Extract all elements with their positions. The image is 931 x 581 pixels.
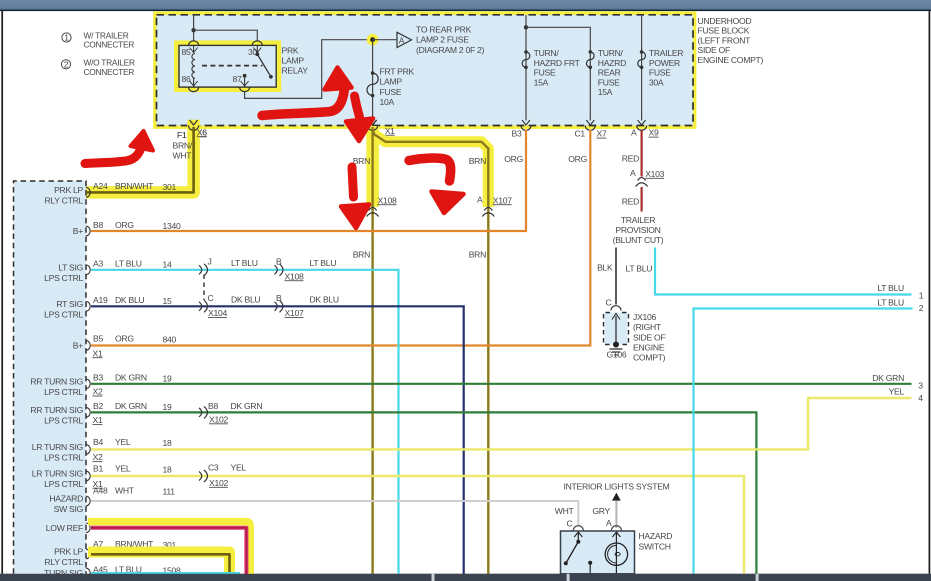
svg-text:A: A: [630, 168, 636, 178]
svg-text:B: B: [276, 293, 282, 303]
row A19 DK BLU 15: [44, 295, 172, 319]
inline connector B X108: [275, 264, 284, 276]
inline connector X107 (vertical BRN): [477, 195, 512, 217]
wire A10 PPL 719 (pink highlighted): [91, 528, 246, 574]
red marker arrow down left BRN: [341, 167, 369, 228]
svg-text:X1: X1: [93, 348, 103, 358]
red marker arrow 7-shape right BRN: [409, 158, 464, 213]
ground G106 symbol: [610, 342, 623, 356]
wire: node A to triangle: [373, 39, 397, 41]
svg-text:LT BLU: LT BLU: [877, 297, 904, 307]
row A45 LT BLU 1508: [44, 565, 181, 579]
svg-text:RR TURN SIG: RR TURN SIG: [30, 405, 83, 415]
wire: jumper to rear turn fuse: [526, 27, 590, 120]
svg-text:X9: X9: [649, 128, 659, 138]
wire A45 LT BLU 1508 (mostly under bar): [91, 572, 240, 574]
ground box JX106 (dashed brackets, blue fill): [604, 313, 629, 345]
svg-text:DK GRN: DK GRN: [872, 373, 904, 383]
svg-text:B8: B8: [208, 401, 218, 411]
junction dot turn feed: [524, 25, 528, 29]
inline connector X108 (vertical BRN): [367, 195, 397, 216]
svg-text:(LEFT FRONT: (LEFT FRONT: [698, 35, 752, 45]
svg-text:PRK LP: PRK LP: [54, 185, 83, 195]
svg-text:LR TURN SIG: LR TURN SIG: [32, 469, 84, 479]
pin 86 stem: [193, 78, 195, 87]
label F1 X6: [177, 127, 207, 140]
svg-text:X6: X6: [197, 127, 207, 137]
svg-text:JX106: JX106: [633, 312, 656, 322]
note 1: W/ TRAILER CONNECTER: [62, 30, 134, 49]
svg-text:UNDERHOOD: UNDERHOOD: [698, 16, 752, 26]
svg-text:B+: B+: [73, 341, 83, 351]
wire A48 WHT 111 to hazard switch: [91, 501, 578, 525]
fuse FRT PRK LAMP FUSE 10A: [367, 71, 378, 97]
svg-text:C1: C1: [575, 129, 586, 139]
svg-text:SW SIG: SW SIG: [54, 504, 84, 514]
wire A24 BRN/WHT core: [87, 127, 194, 192]
svg-text:YEL: YEL: [115, 437, 131, 447]
svg-text:PRK: PRK: [282, 46, 299, 56]
svg-text:DK BLU: DK BLU: [310, 295, 339, 305]
re-draw exit connector X6 over highlight: [189, 120, 199, 130]
svg-text:G106: G106: [607, 350, 627, 360]
svg-text:WHT: WHT: [173, 151, 193, 161]
svg-text:18: 18: [163, 465, 172, 475]
svg-text:RR TURN SIG: RR TURN SIG: [30, 376, 83, 386]
labels BRN on verticals: [353, 156, 370, 166]
svg-text:C3: C3: [208, 462, 219, 472]
row A24 BRN/WHT 301: [44, 181, 176, 205]
label HAZARD SWITCH: [639, 531, 673, 551]
svg-text:DK BLU: DK BLU: [231, 295, 260, 305]
triangle A (to rear prk lamp 2 fuse): [397, 32, 412, 47]
svg-text:87: 87: [233, 74, 242, 84]
relay linkage dashed: [202, 65, 263, 67]
connector C at JX106: [606, 297, 622, 310]
wire B1 YEL 18: [91, 476, 744, 574]
svg-text:B5: B5: [93, 334, 103, 344]
hazard pin C inner arrow + switch blade: [564, 532, 583, 565]
svg-text:TURN/: TURN/: [598, 48, 624, 58]
pin 87 exit arrow: [241, 81, 249, 86]
inline connector B8 X102: [199, 406, 208, 418]
label TRAILER POWER FUSE 30A: [649, 48, 683, 87]
wire LT BLU 1 from trailer provision to right edge: [655, 248, 912, 295]
svg-text:2: 2: [64, 59, 69, 69]
svg-text:ORG: ORG: [504, 154, 523, 164]
red marker arrow down at X1: [346, 96, 373, 141]
svg-text:F1: F1: [177, 130, 187, 140]
svg-text:WHT: WHT: [555, 506, 575, 516]
svg-text:INTERIOR LIGHTS SYSTEM: INTERIOR LIGHTS SYSTEM: [564, 481, 670, 491]
label TO REAR PRK LAMP 2 FUSE: [416, 25, 485, 55]
svg-text:X2: X2: [93, 387, 103, 397]
ground stem arrow inside box: [612, 314, 620, 345]
svg-text:LPS CTRL: LPS CTRL: [44, 415, 83, 425]
red marker arrow near A24: [85, 131, 153, 164]
underhood fuse block box (highlight + fill + dashed border): [157, 15, 694, 126]
highlight: A7 BRN/WHT yellow band: [88, 552, 230, 574]
label BRN/WHT vertical: [173, 141, 193, 161]
wire X1 BRN main drop core: [371, 127, 373, 574]
hazard pin A connector arc: [606, 518, 621, 531]
svg-text:WHT: WHT: [115, 486, 135, 496]
svg-text:LT BLU: LT BLU: [115, 258, 142, 268]
prk lamp relay U1 (highlighted box): [178, 44, 278, 88]
svg-text:X103: X103: [645, 169, 664, 179]
svg-text:RT SIG: RT SIG: [56, 299, 83, 309]
svg-text:LPS CTRL: LPS CTRL: [44, 387, 83, 397]
re-draw exit connector X1 over highlight: [368, 120, 378, 130]
svg-text:X108: X108: [285, 271, 304, 281]
svg-text:B4: B4: [93, 437, 103, 447]
svg-text:1340: 1340: [163, 221, 181, 231]
pin 87 stem: [243, 74, 247, 87]
fuse TRAILER POWER FUSE 30A: [638, 50, 646, 69]
svg-text:X108: X108: [378, 195, 397, 205]
label A X9: [631, 128, 659, 138]
page left border: [1, 11, 3, 574]
junction dot feed split: [191, 28, 195, 32]
highlight: A24 BRN/WHT path: [87, 126, 194, 192]
svg-text:FUSE: FUSE: [380, 87, 402, 97]
svg-text:DK GRN: DK GRN: [115, 372, 147, 382]
box exit connector X6: [189, 120, 199, 130]
svg-text:4: 4: [918, 393, 923, 403]
wire: feed from box top to pin 85: [193, 15, 195, 42]
svg-text:RLY CTRL: RLY CTRL: [44, 195, 83, 205]
wire LT BLU 2 from right edge down to bottom: [694, 309, 913, 575]
row A10 PPL 719: [46, 516, 177, 533]
svg-text:TO REAR PRK: TO REAR PRK: [416, 25, 472, 35]
svg-text:X1: X1: [93, 415, 103, 425]
svg-text:LPS CTRL: LPS CTRL: [44, 479, 83, 489]
svg-text:LT BLU: LT BLU: [877, 283, 904, 293]
hazard mid contact stub: [588, 561, 592, 573]
svg-text:301: 301: [163, 182, 177, 192]
inline connector J (X104 top): [199, 264, 208, 276]
arrow to interior lights system: [612, 493, 621, 501]
svg-text:LPS CTRL: LPS CTRL: [44, 309, 83, 319]
relay coil: [192, 54, 195, 79]
svg-text:A24: A24: [93, 181, 108, 191]
hazard pin C connector arc: [567, 519, 584, 531]
svg-text:LPS CTRL: LPS CTRL: [44, 273, 83, 283]
svg-text:BRN/WHT: BRN/WHT: [115, 181, 154, 191]
label LT BLU 1 right edge: [877, 283, 923, 301]
inline connector C3 X102: [199, 470, 208, 482]
svg-text:A: A: [631, 128, 637, 138]
svg-text:HAZRD FRT: HAZRD FRT: [534, 58, 581, 68]
pin 30 entry arrow: [253, 45, 261, 52]
svg-text:POWER: POWER: [649, 58, 680, 68]
label TURN/HAZRD FRT FUSE 15A: [534, 48, 581, 87]
wire RED X103 to trailer provision: [640, 187, 642, 212]
relay switch blade 30-87: [255, 52, 272, 78]
svg-text:X1: X1: [385, 126, 395, 136]
note 2: W/O TRAILER CONNECTER: [61, 58, 135, 77]
svg-text:HAZARD: HAZARD: [49, 494, 83, 504]
svg-text:BRN: BRN: [469, 250, 486, 260]
svg-text:BRN: BRN: [469, 156, 486, 166]
relay label PRK LAMP RELAY: [282, 46, 309, 76]
row A48 WHT 111: [49, 486, 175, 515]
inline connector B X107: [275, 300, 284, 312]
svg-text:B+: B+: [73, 226, 83, 236]
svg-text:SIDE OF: SIDE OF: [633, 332, 665, 342]
svg-text:C: C: [606, 297, 612, 307]
svg-text:(BLUNT CUT): (BLUNT CUT): [613, 235, 664, 245]
page right border: [928, 11, 930, 574]
svg-text:PROVISION: PROVISION: [615, 225, 660, 235]
svg-text:RELAY: RELAY: [282, 66, 309, 76]
svg-text:HAZRD: HAZRD: [598, 58, 626, 68]
svg-text:LR TURN SIG: LR TURN SIG: [32, 442, 84, 452]
wire B2 DK GRN 19: [91, 412, 756, 574]
svg-text:FUSE: FUSE: [649, 68, 671, 78]
svg-text:ORG: ORG: [568, 154, 587, 164]
bottom window bar: [0, 574, 931, 581]
wire A7 BRN/WHT core: [91, 554, 230, 574]
svg-text:X7: X7: [597, 129, 607, 139]
wire X1 BRN branch core: [373, 131, 489, 574]
pin 86 exit arrow: [190, 81, 198, 86]
svg-text:B2: B2: [93, 401, 103, 411]
svg-text:C: C: [567, 519, 573, 529]
svg-text:LAMP: LAMP: [282, 56, 305, 66]
svg-text:30A: 30A: [649, 77, 664, 87]
wire: trailer power fuse drop: [641, 15, 643, 121]
label TURN/HAZRD REAR FUSE 15A: [598, 48, 626, 97]
svg-text:YEL: YEL: [889, 386, 905, 396]
left component box (dashed, blue fill): [14, 181, 87, 574]
svg-text:18: 18: [163, 438, 172, 448]
svg-text:LT BLU: LT BLU: [310, 258, 337, 268]
svg-text:DK GRN: DK GRN: [231, 401, 263, 411]
svg-text:BRN: BRN: [353, 250, 370, 260]
svg-text:86: 86: [182, 74, 191, 84]
svg-text:LT BLU: LT BLU: [231, 258, 258, 268]
svg-text:DK BLU: DK BLU: [115, 295, 144, 305]
wire B4 YEL 18 to right edge 4: [91, 398, 912, 449]
svg-text:X107: X107: [493, 195, 512, 205]
node A junction dot: [370, 37, 375, 42]
svg-text:J: J: [208, 257, 212, 267]
svg-text:X104: X104: [208, 308, 227, 318]
svg-text:RLY CTRL: RLY CTRL: [44, 557, 83, 567]
svg-text:A: A: [399, 35, 405, 45]
inline connector C X104: [199, 300, 208, 312]
wire BLK to ground: [615, 248, 617, 305]
svg-text:15A: 15A: [598, 87, 613, 97]
row B5 ORG 840: [73, 334, 177, 359]
svg-text:(RIGHT: (RIGHT: [633, 322, 662, 332]
red marker arrow up at FRT PRK fuse: [262, 68, 352, 116]
svg-text:A: A: [606, 518, 612, 528]
pin 87 connector arc: [240, 87, 250, 92]
wire: pin 87 to FRT PRK fuse node: [245, 40, 368, 99]
label YEL right edge: [889, 386, 924, 403]
svg-text:LAMP: LAMP: [380, 77, 403, 87]
highlight: X1 BRN branch paths: [366, 126, 379, 207]
svg-text:ENGINE COMPT): ENGINE COMPT): [698, 55, 764, 65]
svg-text:TRAILER: TRAILER: [649, 48, 683, 58]
label JX106 (RIGHT SIDE OF ENGINE COMPT): [633, 312, 666, 363]
svg-text:YEL: YEL: [115, 464, 131, 474]
svg-text:LOW REF: LOW REF: [46, 523, 83, 533]
row B1 YEL 18: [32, 464, 172, 490]
svg-text:ORG: ORG: [115, 334, 134, 344]
svg-text:BRN/: BRN/: [173, 141, 193, 151]
row A3 LT BLU 14: [44, 258, 172, 282]
svg-text:15A: 15A: [534, 77, 549, 87]
row A7 BRN/WHT 301: [44, 539, 176, 567]
svg-text:LT BLU: LT BLU: [626, 263, 653, 273]
svg-text:2: 2: [919, 303, 924, 313]
bottom window bar (over wires): [0, 574, 931, 581]
row B3 DK GRN 19: [30, 372, 172, 397]
svg-text:A: A: [477, 195, 483, 205]
underhood fuse block label: [698, 16, 764, 65]
node A highlight blob: [367, 34, 379, 46]
label LT BLU 2 right edge: [877, 297, 923, 313]
svg-text:3: 3: [918, 381, 923, 391]
svg-text:15: 15: [163, 296, 172, 306]
svg-text:RED: RED: [622, 154, 639, 164]
wire RED X9 to X103: [640, 131, 642, 177]
pin 85 connector arc: [189, 41, 199, 46]
box exit connector X7: [585, 120, 595, 130]
svg-text:CONNECTER: CONNECTER: [84, 40, 135, 50]
fuse TURN/HAZRD REAR FUSE 15A: [586, 50, 594, 69]
svg-text:ENGINE: ENGINE: [633, 343, 665, 353]
svg-text:GRY: GRY: [592, 506, 610, 516]
svg-text:1: 1: [919, 291, 924, 301]
box exit connector X9: [637, 120, 647, 130]
svg-text:840: 840: [163, 335, 177, 345]
svg-text:1: 1: [64, 33, 69, 43]
fuse TURN/HAZRD FRT FUSE 15A: [522, 50, 530, 69]
svg-text:FUSE: FUSE: [598, 77, 620, 87]
row B2 DK GRN 19: [30, 401, 172, 426]
svg-text:YEL: YEL: [231, 462, 247, 472]
row B8 ORG 1340: [73, 220, 181, 236]
svg-text:SIDE OF: SIDE OF: [698, 45, 730, 55]
svg-text:B8: B8: [93, 220, 103, 230]
label TRAILER PROVISION (BLUNT CUT): [613, 215, 664, 245]
wire B8 ORG 1340 to fuse B3: [91, 130, 526, 232]
svg-text:B3: B3: [93, 372, 103, 382]
svg-text:111: 111: [163, 487, 176, 497]
svg-text:A19: A19: [93, 295, 108, 305]
svg-text:X102: X102: [209, 414, 228, 424]
svg-text:10A: 10A: [380, 97, 395, 107]
wire B3 DK GRN 19 full width: [91, 383, 912, 385]
svg-text:TURN/: TURN/: [534, 48, 560, 58]
label FRT PRK LAMP FUSE 10A: [380, 67, 415, 108]
svg-text:COMPT): COMPT): [633, 353, 666, 363]
svg-text:X107: X107: [285, 308, 304, 318]
wire: node A down to FRT PRK fuse and X1: [372, 40, 374, 121]
svg-text:19: 19: [163, 373, 172, 383]
pin 85 entry arrow: [190, 45, 198, 52]
label X1: [385, 126, 395, 136]
svg-text:BLK: BLK: [597, 262, 613, 272]
svg-text:(DIAGRAM 2 0F 2): (DIAGRAM 2 0F 2): [416, 45, 485, 55]
svg-text:FUSE BLOCK: FUSE BLOCK: [698, 26, 750, 36]
svg-text:19: 19: [163, 402, 172, 412]
label C1 X7: [575, 129, 607, 139]
highlight: A10 PPL yellow band: [88, 522, 250, 574]
box exit connector B3: [521, 120, 531, 130]
row B4 YEL 18: [32, 437, 172, 463]
svg-text:RED: RED: [622, 197, 639, 207]
svg-text:B: B: [276, 257, 282, 267]
hazard switch box: [561, 531, 635, 574]
relay pin labels 85 30 86 87: [182, 47, 258, 84]
hazard pin A inner arrow: [612, 532, 620, 543]
svg-text:A3: A3: [93, 258, 103, 268]
svg-text:REAR: REAR: [598, 68, 621, 78]
svg-text:LT SIG: LT SIG: [58, 262, 83, 272]
svg-text:C: C: [208, 293, 214, 303]
label B3: [512, 129, 522, 139]
svg-text:HAZARD: HAZARD: [639, 531, 673, 541]
svg-text:85: 85: [182, 47, 191, 57]
svg-text:A48: A48: [93, 486, 108, 496]
hazard lamp: [605, 543, 627, 573]
wire: turn/hazrd frt fuse drop: [525, 15, 527, 121]
svg-text:LPS CTRL: LPS CTRL: [44, 452, 83, 462]
labels F1 X6 over highlight: [177, 127, 207, 140]
svg-text:SWITCH: SWITCH: [639, 541, 671, 551]
svg-text:B1: B1: [93, 464, 103, 474]
svg-text:PRK LP: PRK LP: [54, 547, 83, 557]
svg-text:14: 14: [163, 259, 172, 269]
svg-text:TRAILER: TRAILER: [621, 215, 655, 225]
svg-text:LAMP 2 FUSE: LAMP 2 FUSE: [416, 35, 469, 45]
wire A3 LT BLU 14: [91, 270, 399, 574]
svg-text:ORG: ORG: [115, 220, 134, 230]
wire: feed split to pin 30: [194, 30, 258, 41]
pin 30 connector arc: [252, 41, 262, 45]
svg-text:FUSE: FUSE: [534, 68, 556, 78]
box exit connector X1: [368, 120, 378, 130]
wire B5 ORG 840 to fuse C1/X7: [91, 130, 590, 346]
inline connector X103: [630, 168, 665, 186]
pin 86 connector arc: [189, 87, 199, 92]
svg-text:FRT PRK: FRT PRK: [380, 67, 415, 77]
svg-text:X102: X102: [209, 478, 228, 488]
svg-text:X2: X2: [93, 452, 103, 462]
svg-text:DK GRN: DK GRN: [115, 401, 147, 411]
label DK GRN right edge: [872, 373, 923, 391]
dashed link J to C (connector X104): [203, 275, 205, 301]
svg-text:B3: B3: [512, 129, 522, 139]
wire GRY hazard to interior lights: [615, 501, 617, 528]
svg-text:CONNECTER: CONNECTER: [84, 67, 135, 77]
wire A19 DK BLU 15: [91, 306, 464, 574]
